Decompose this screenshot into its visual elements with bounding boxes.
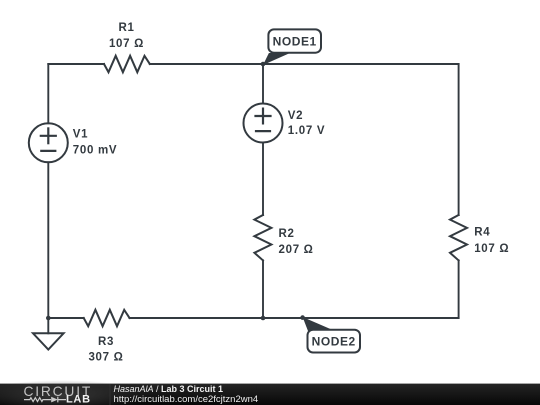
wire right vertical lower — [458, 260, 460, 318]
svg-text:R4: R4 — [474, 227, 490, 239]
wire right vertical upper — [458, 64, 460, 215]
svg-text:307 Ω: 307 Ω — [88, 352, 123, 364]
label R2 value — [279, 228, 314, 256]
wire bottom segment — [130, 317, 459, 319]
svg-text:107 Ω: 107 Ω — [474, 243, 509, 255]
footer divider — [109, 384, 111, 405]
label V1 value — [73, 128, 117, 156]
svg-text:HasanAlA / Lab 3 Circuit 1: HasanAlA / Lab 3 Circuit 1 — [114, 384, 224, 394]
resistor R4 — [450, 215, 467, 260]
node junction dot NODE2 — [300, 315, 305, 320]
node junction dot NODE1 — [261, 62, 266, 67]
svg-text:LAB: LAB — [66, 394, 91, 405]
label R4 value — [474, 227, 509, 256]
svg-text:R3: R3 — [98, 336, 114, 348]
label V2 value — [288, 110, 325, 137]
node NODE1 callout — [263, 29, 321, 65]
resistor R2 — [254, 215, 271, 260]
wire left vertical upper — [47, 64, 49, 123]
svg-text:R2: R2 — [279, 228, 295, 240]
svg-text:R1: R1 — [118, 22, 134, 34]
svg-text:1.07 V: 1.07 V — [288, 125, 325, 137]
resistor R3 — [84, 310, 130, 326]
svg-text:700 mV: 700 mV — [73, 144, 117, 156]
logo resistor zigzag — [24, 398, 51, 402]
wire middle lower — [262, 260, 264, 318]
resistor R1 — [104, 56, 150, 72]
ground — [47, 318, 49, 333]
svg-text:V1: V1 — [73, 128, 88, 140]
svg-text:V2: V2 — [288, 110, 303, 122]
svg-text:http://circuitlab.com/ce2fcjtz: http://circuitlab.com/ce2fcjtzn2wn4 — [114, 394, 259, 405]
wire left vertical lower — [47, 162, 49, 318]
wire top-right segment — [150, 63, 459, 65]
voltage source V2 — [244, 104, 283, 143]
wire middle upper — [262, 64, 264, 104]
label R3 value — [88, 336, 123, 363]
voltage source V1 — [29, 123, 68, 162]
label R1 value — [109, 22, 144, 50]
svg-text:107 Ω: 107 Ω — [109, 38, 144, 50]
node junction dot middle-bottom — [261, 316, 266, 321]
logo diode — [51, 397, 58, 403]
svg-text:NODE2: NODE2 — [312, 334, 356, 348]
svg-text:207 Ω: 207 Ω — [279, 244, 314, 256]
wire top-left segment — [48, 63, 104, 65]
wire middle mid — [262, 143, 264, 216]
node junction dot bottom-left — [46, 316, 51, 321]
svg-text:NODE1: NODE1 — [273, 34, 317, 48]
node NODE2 callout — [303, 317, 360, 353]
wire bottom-left segment — [48, 317, 83, 319]
